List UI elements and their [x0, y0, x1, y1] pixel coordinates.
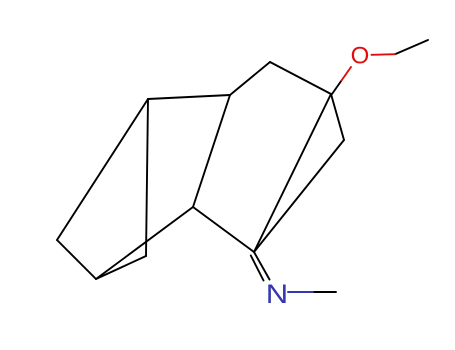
svg-text:O: O: [351, 43, 370, 70]
svg-text:N: N: [266, 280, 288, 310]
